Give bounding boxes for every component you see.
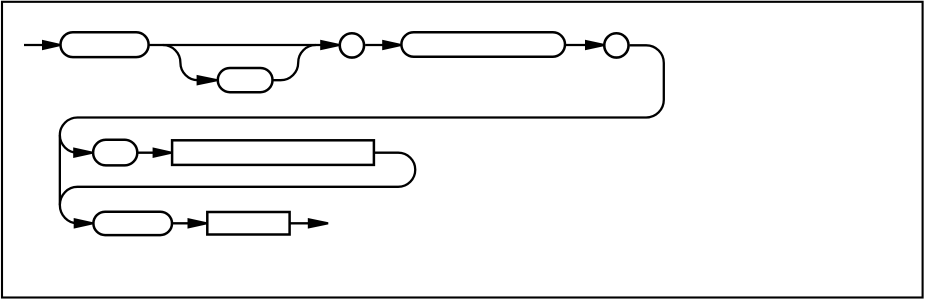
- wire T4 to box B1: [137, 152, 154, 154]
- arrowhead A10 exit: [308, 218, 329, 229]
- terminal pill T4 (row2): [93, 140, 137, 166]
- wire junction into row3: [60, 205, 78, 223]
- wire row1 main: [149, 44, 322, 46]
- nonterminal box B2 (row3): [207, 212, 289, 235]
- nonterminal box B1 (row2): [172, 140, 374, 165]
- arrowhead A9 into box B2: [188, 218, 207, 229]
- arrowhead A4 into pill T3: [382, 40, 401, 51]
- arrowhead A3 into circle C1: [320, 40, 339, 51]
- wire T3 to C2: [565, 44, 587, 46]
- terminal pill T5 (row3): [93, 212, 172, 235]
- wire branch down: [163, 45, 198, 80]
- wire return loop from C2 down to row2 junction: [60, 45, 664, 135]
- wire T5 to box B2: [172, 222, 189, 224]
- terminal pill T2 (optional branch): [218, 68, 273, 92]
- wire left vertical: [59, 135, 61, 205]
- circle terminal C2: [604, 33, 628, 57]
- arrowhead A8 into pill T5: [74, 218, 93, 229]
- wire branch exit up: [273, 45, 316, 80]
- wire junction into row2: [60, 135, 78, 153]
- arrowhead A1 into pill T1: [42, 40, 60, 51]
- arrowhead A7 into box B1: [153, 147, 172, 158]
- wire entry row1: [24, 44, 44, 46]
- arrowhead A6 into pill T4: [73, 147, 92, 158]
- circle terminal C1: [340, 33, 364, 57]
- wire exit row3: [290, 222, 313, 224]
- terminal pill T3: [401, 32, 565, 56]
- terminal pill T1: [61, 32, 149, 57]
- wire loop-back from B1 to left vertical: [60, 153, 415, 205]
- arrowhead A5 into circle C2: [585, 40, 604, 51]
- wire C1 to T3: [365, 44, 383, 46]
- arrowhead A2 into pill T2: [197, 75, 218, 86]
